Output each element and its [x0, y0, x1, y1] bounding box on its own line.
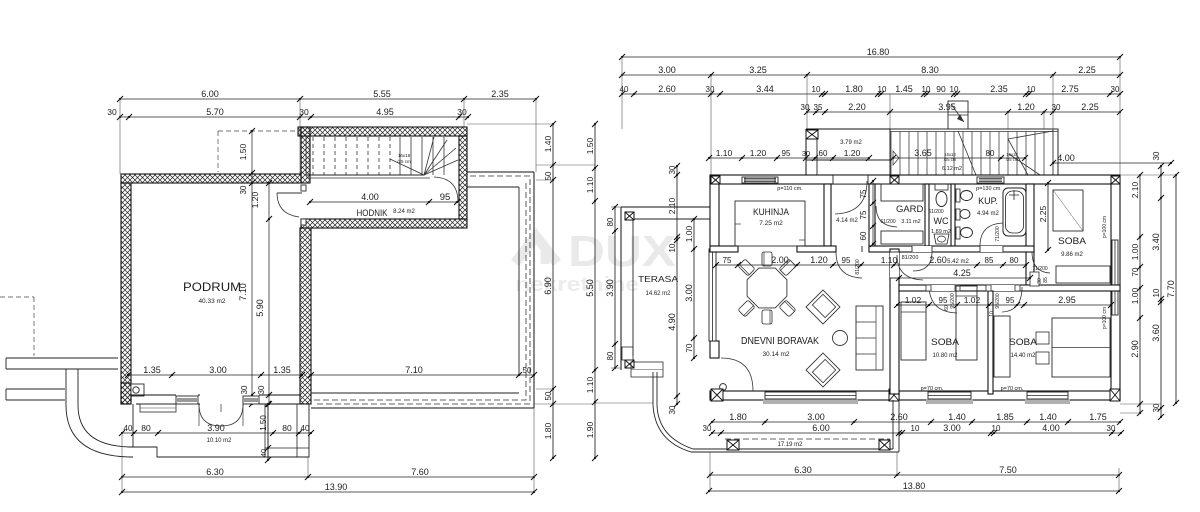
- svg-text:4.94 m2: 4.94 m2: [977, 211, 999, 217]
- chain 2.10/1.00/70/1.00/2.90: [1130, 172, 1143, 416]
- dim row 6.00 / 5.55 / 2.35: [117, 89, 539, 102]
- svg-text:30: 30: [1152, 403, 1161, 412]
- column marker pergola E: [879, 440, 890, 450]
- svg-text:61/200: 61/200: [880, 219, 896, 225]
- retaining wall band lower: [6, 388, 65, 390]
- dim 40/80/3.90/80/40: [119, 423, 314, 436]
- upstairs stair block outline: [890, 129, 1058, 177]
- svg-text:7.70: 7.70: [1166, 280, 1176, 298]
- svg-text:1.20: 1.20: [844, 148, 861, 158]
- svg-text:1.02: 1.02: [905, 295, 922, 305]
- extension line: [534, 403, 595, 405]
- wall W8 bottom of PODRUM (thin, with openings): [131, 394, 176, 396]
- wall SOBA1/SOBA2: [988, 291, 993, 394]
- column marker SE: [1110, 389, 1120, 401]
- svg-text:/25 cm: /25 cm: [944, 157, 957, 162]
- svg-text:GARD.: GARD.: [896, 204, 926, 214]
- nightstand SOBA2 a: [1036, 332, 1049, 344]
- wall living/bedroom hall: [890, 249, 899, 394]
- dim 1.50/40 porch: [259, 401, 271, 463]
- extension line: [1119, 57, 1121, 175]
- extension line: [611, 367, 621, 369]
- svg-text:1.80: 1.80: [729, 412, 747, 422]
- dim 2.25 SOBA top: [1038, 180, 1051, 253]
- svg-text:7.10: 7.10: [238, 283, 248, 301]
- svg-text:SOBA: SOBA: [931, 337, 960, 348]
- dim 7.10 / 50: [308, 365, 537, 378]
- window SOBA1 south: [926, 399, 973, 404]
- wall W5 stair block east: [459, 136, 467, 219]
- svg-text:1.50: 1.50: [585, 137, 595, 154]
- svg-text:50: 50: [544, 391, 553, 400]
- upstairs stair treads: [891, 132, 1044, 176]
- svg-text:40: 40: [301, 424, 310, 433]
- wall W6 corridor south: [301, 219, 467, 228]
- path from terasa: [652, 372, 654, 405]
- corridor floor line: [306, 177, 430, 179]
- svg-text:4.00: 4.00: [361, 192, 379, 202]
- column marker NW: [711, 176, 720, 184]
- svg-text:1.10: 1.10: [881, 255, 898, 265]
- svg-text:30: 30: [802, 149, 810, 158]
- svg-text:95: 95: [939, 296, 948, 305]
- svg-text:SOBA: SOBA: [1058, 236, 1087, 247]
- kitchen counter: [735, 201, 805, 246]
- svg-text:3.90: 3.90: [207, 423, 225, 433]
- chain 30/3.40/10/3.60/30: [1151, 151, 1164, 420]
- svg-text:95/200: 95/200: [950, 293, 956, 309]
- closet shelf GARD top: [881, 184, 923, 201]
- dim hall 75/2.00/1.20/95/1.10/2.60: [713, 255, 1029, 268]
- dashed boundary top-left: [0, 296, 34, 298]
- svg-text:1.35: 1.35: [143, 365, 161, 375]
- door at PODRUM northeast: [277, 192, 302, 194]
- extension line: [611, 206, 621, 208]
- svg-text:5.90: 5.90: [255, 299, 265, 317]
- stair landing edge: [306, 174, 424, 176]
- wall hall north: [869, 246, 1034, 252]
- svg-text:p=110 cm.: p=110 cm.: [777, 186, 803, 192]
- extension line: [1118, 468, 1120, 491]
- svg-text:p=130 cm.: p=130 cm.: [976, 186, 1002, 192]
- svg-text:1.85: 1.85: [996, 412, 1014, 422]
- column marker landing NW: [806, 130, 818, 139]
- svg-text:2.25: 2.25: [1081, 102, 1099, 112]
- svg-text:1.20: 1.20: [750, 148, 767, 158]
- svg-text:75: 75: [859, 189, 868, 198]
- svg-text:95: 95: [842, 256, 851, 265]
- extension line: [307, 457, 309, 477]
- terasa steps lower: [631, 362, 663, 377]
- extension line: [1007, 112, 1009, 129]
- svg-text:6.30: 6.30: [794, 465, 812, 475]
- svg-text:1.50: 1.50: [259, 415, 268, 431]
- staircase basement: winder diagonals: [390, 137, 458, 175]
- svg-text:3.60: 3.60: [1151, 324, 1161, 342]
- svg-text:2.90: 2.90: [1130, 340, 1140, 358]
- svg-text:7.50: 7.50: [999, 465, 1017, 475]
- svg-text:6.12 m2: 6.12 m2: [942, 166, 962, 172]
- wall kitchen south east pier: [797, 246, 836, 252]
- svg-text:4.25: 4.25: [953, 268, 971, 278]
- dim 16.80: [619, 47, 1123, 60]
- extension line: [467, 123, 553, 125]
- window east lower: [1112, 290, 1118, 315]
- door swing KUP: [980, 223, 1003, 246]
- door swing corridor east: [434, 177, 458, 202]
- svg-text:30: 30: [801, 103, 810, 112]
- svg-text:81/200: 81/200: [855, 259, 861, 275]
- double bed SOBA2: [1052, 318, 1110, 377]
- east wall: [1111, 184, 1120, 400]
- corner column box with drain: [131, 384, 144, 396]
- svg-text:95: 95: [782, 149, 791, 158]
- WC sink: [934, 234, 949, 244]
- svg-text:6.00: 6.00: [812, 423, 830, 433]
- extension line: [119, 99, 121, 174]
- svg-text:30: 30: [239, 185, 248, 194]
- svg-text:95: 95: [440, 192, 451, 203]
- dresser SOBA top: [1056, 266, 1110, 283]
- west wall kitchen: [710, 184, 719, 246]
- KUP toilet 2: [956, 227, 960, 239]
- dim 1.35/3.00/1.35: [125, 365, 305, 378]
- KUP toilet 1: [956, 189, 960, 202]
- svg-text:10.80 m2: 10.80 m2: [932, 353, 958, 359]
- svg-text:10: 10: [1027, 85, 1036, 94]
- coffee table: [833, 331, 848, 346]
- chain 1.40/50/6.90/50/1.80: [543, 121, 556, 461]
- south wall bedrooms: [899, 391, 1120, 400]
- svg-text:10: 10: [812, 85, 821, 94]
- svg-text:8.24 m2: 8.24 m2: [393, 209, 415, 215]
- wall W4 stair block west: [301, 127, 310, 183]
- svg-text:2.60: 2.60: [929, 255, 947, 265]
- svg-text:2.35: 2.35: [990, 84, 1008, 94]
- svg-text:5.55: 5.55: [373, 89, 391, 99]
- svg-text:p=70 cm.: p=70 cm.: [1001, 386, 1024, 392]
- svg-text:80: 80: [606, 217, 615, 226]
- svg-text:1.50: 1.50: [238, 143, 248, 160]
- svg-text:2.10: 2.10: [667, 197, 677, 214]
- extension line: [889, 94, 891, 129]
- door swing SOBA1: [929, 285, 957, 313]
- svg-text:2.35: 2.35: [491, 89, 509, 99]
- svg-text:4.00: 4.00: [1057, 153, 1075, 163]
- terasa step upper: [622, 347, 633, 360]
- door swing entry left: [199, 404, 221, 426]
- basement window 2: [243, 396, 259, 404]
- WC toilet: [935, 184, 948, 190]
- stair bump protrusion: [948, 101, 968, 129]
- svg-text:3.40: 3.40: [1151, 233, 1161, 251]
- extension line: [299, 99, 301, 174]
- door jamb: [1015, 285, 1020, 291]
- svg-text:50: 50: [544, 171, 553, 180]
- column marker terasa SW: [625, 360, 634, 368]
- dim row 30/35/2.20/3.95/1.20/30/2.25: [801, 102, 1123, 115]
- bathtub: [1003, 188, 1026, 236]
- svg-text:17.19 m2: 17.19 m2: [777, 442, 803, 448]
- svg-text:10: 10: [668, 243, 677, 252]
- svg-text:5.70: 5.70: [206, 107, 224, 117]
- svg-text:1.90: 1.90: [585, 421, 595, 438]
- svg-text:4.14 m2: 4.14 m2: [836, 218, 858, 224]
- svg-text:71/200: 71/200: [1032, 266, 1048, 272]
- entry porch outline: [133, 404, 309, 457]
- dashed roof projection above stair block: [217, 131, 219, 172]
- wall W3 stair block north: [298, 127, 467, 136]
- svg-text:DUX: DUX: [568, 227, 676, 276]
- svg-text:10: 10: [911, 424, 920, 433]
- extension line: [533, 408, 535, 492]
- column marker terasa NW: [625, 212, 634, 220]
- door jamb box: [1030, 272, 1039, 286]
- wall KUP/SOBA top: [1026, 184, 1034, 290]
- svg-text:1.40: 1.40: [543, 135, 553, 152]
- svg-text:40: 40: [124, 424, 133, 433]
- watermark: DUX logo roof, center: [515, 227, 676, 296]
- svg-text:1.20: 1.20: [810, 255, 828, 265]
- svg-text:/25 cm: /25 cm: [397, 159, 411, 164]
- column marker N center: [890, 176, 899, 184]
- extension line: [121, 433, 123, 492]
- svg-text:1.10: 1.10: [585, 376, 595, 393]
- door jamb: [986, 285, 991, 291]
- svg-text:2.60: 2.60: [890, 412, 908, 422]
- dim row 1.10/1.20/95/30/60/1.20: [706, 148, 872, 161]
- small step outline below bottom wall left: [140, 404, 176, 412]
- window kitchen north: [742, 177, 778, 183]
- svg-text:HODNIK: HODNIK: [357, 208, 389, 219]
- nightstand SOBA2 b: [1036, 352, 1049, 364]
- dim corridor 4.00 / 95: [307, 192, 460, 205]
- door swing lobby: [836, 252, 862, 278]
- svg-text:7.25 m2: 7.25 m2: [759, 220, 783, 227]
- svg-text:4.95: 4.95: [376, 107, 394, 117]
- svg-text:2.00: 2.00: [771, 255, 789, 265]
- dim 1.50/30/7.10/30 inside PODRUM: [238, 128, 255, 407]
- svg-text:70: 70: [685, 343, 694, 352]
- patio door swing living SW: [721, 358, 753, 391]
- drain circle symbol: [133, 387, 139, 393]
- right rectangle of left plan: outer solid: [467, 171, 534, 173]
- door swing SOBA2: [1002, 287, 1022, 312]
- svg-text:2.20: 2.20: [848, 102, 866, 112]
- svg-text:60: 60: [944, 305, 950, 311]
- dim 13.90: [119, 482, 537, 495]
- window: [928, 392, 971, 399]
- svg-text:3.79 m2: 3.79 m2: [840, 140, 862, 146]
- svg-text:16.80: 16.80: [867, 47, 890, 57]
- svg-text:30: 30: [1107, 424, 1116, 433]
- svg-text:5.50: 5.50: [585, 279, 595, 297]
- svg-text:3.44: 3.44: [756, 84, 774, 94]
- svg-text:80: 80: [141, 423, 151, 433]
- svg-text:3.00: 3.00: [943, 423, 961, 433]
- chain 30/2.10/10/4.90/30: [667, 163, 680, 414]
- svg-text:7.10: 7.10: [405, 365, 423, 375]
- svg-text:71/200: 71/200: [995, 226, 1001, 242]
- svg-text:PODRUM: PODRUM: [183, 280, 241, 294]
- wall WC/KUP: [951, 184, 955, 246]
- dim 3.00/3.25/8.30/2.25: [619, 65, 1123, 78]
- svg-text:85: 85: [1043, 277, 1049, 283]
- dim 1.80/3.00/2.60/1.40/1.85/1.40/1.75: [709, 412, 1123, 425]
- dining table (octagon): [747, 268, 787, 308]
- wardrobe SOBA2: [994, 316, 1010, 377]
- extension line: [1043, 112, 1045, 129]
- svg-text:35: 35: [814, 103, 823, 112]
- dim 6.30 / 7.50: [707, 465, 1122, 478]
- svg-text:KUP.: KUP.: [978, 196, 998, 206]
- svg-text:5.42 m2: 5.42 m2: [947, 259, 969, 265]
- svg-text:30: 30: [299, 107, 309, 117]
- window living south: [763, 399, 858, 404]
- svg-text:30: 30: [457, 107, 467, 117]
- column marker pergola W: [727, 440, 739, 450]
- extension line: [1120, 412, 1140, 414]
- staircase basement: treads: [313, 137, 444, 175]
- curved driveway wall: [66, 369, 133, 457]
- window east upper: [1112, 240, 1118, 285]
- armchair 1: [806, 290, 840, 324]
- wardrobe SOBA1: [956, 286, 977, 360]
- svg-text:6.30: 6.30: [206, 467, 224, 477]
- door swing kitchen: [835, 181, 867, 214]
- svg-text:10: 10: [950, 85, 959, 94]
- svg-text:p=100 cm: p=100 cm: [1102, 216, 1108, 238]
- svg-text:30: 30: [706, 85, 715, 94]
- svg-text:1.80: 1.80: [845, 84, 863, 94]
- svg-text:10: 10: [992, 424, 1001, 433]
- column marker SW living: [711, 389, 723, 401]
- svg-text:2.10: 2.10: [1130, 181, 1140, 198]
- sofa: [856, 306, 883, 370]
- door swing GARD: [876, 206, 897, 227]
- svg-text:2.95: 2.95: [1058, 295, 1076, 305]
- svg-text:10: 10: [922, 85, 931, 94]
- svg-text:30: 30: [1111, 85, 1120, 94]
- svg-text:1.20: 1.20: [250, 191, 260, 208]
- extension line: [1120, 403, 1161, 405]
- svg-text:6.00: 6.00: [201, 89, 219, 99]
- armchair 2: [806, 353, 840, 387]
- chain 1.00/3.00/70: [684, 216, 697, 361]
- extension line: [709, 452, 711, 491]
- door swing hall-living: [897, 255, 923, 280]
- svg-text:3.65: 3.65: [914, 148, 932, 158]
- svg-text:30: 30: [107, 107, 117, 117]
- svg-text:1.40: 1.40: [948, 412, 966, 422]
- svg-text:1.10: 1.10: [585, 176, 595, 193]
- svg-text:4.00: 4.00: [1042, 423, 1060, 433]
- svg-text:30: 30: [240, 385, 249, 394]
- svg-text:14.40 m2: 14.40 m2: [1010, 353, 1036, 359]
- upstairs landing: [806, 128, 890, 130]
- svg-text:1.45: 1.45: [895, 84, 913, 94]
- dim row 30/5.70/30/4.95/30: [107, 107, 471, 120]
- svg-text:3.00: 3.00: [807, 412, 825, 422]
- wall W2 left of PODRUM: [121, 183, 131, 404]
- right rectangle: dashed inner outline: [314, 176, 530, 404]
- extension line: [535, 99, 537, 172]
- svg-text:4.90: 4.90: [667, 313, 677, 331]
- TERASA outline: [621, 206, 710, 208]
- svg-text:30: 30: [703, 424, 712, 433]
- svg-text:7.60: 7.60: [411, 467, 429, 477]
- svg-text:30.14 m2: 30.14 m2: [762, 351, 789, 358]
- svg-text:1.10: 1.10: [716, 148, 733, 158]
- dim 6.30 / 7.60: [119, 467, 537, 480]
- extension line: [536, 164, 595, 166]
- svg-text:3.25: 3.25: [749, 65, 767, 75]
- wall W8a bottom-left corner piece: [121, 383, 131, 404]
- dim row 40/2.60/30/3.44/10/1.80/10/1.45/10/90/10/2.35/10/2.75/30: [619, 84, 1123, 97]
- svg-text:1.20: 1.20: [1017, 102, 1035, 112]
- wall kitchen south west pier: [710, 246, 738, 252]
- closet shelf GARD bottom: [881, 231, 923, 244]
- basement window 1: [176, 396, 198, 404]
- svg-text:1.00: 1.00: [1130, 243, 1140, 260]
- svg-text:40.33 m2: 40.33 m2: [198, 298, 225, 305]
- dim 1.20/5.90/30 inside PODRUM: [250, 180, 272, 407]
- patio lower terrace: [691, 451, 899, 453]
- svg-text:3.11 m2: 3.11 m2: [901, 219, 920, 225]
- dim 1.02/95/1.02/95/2.95: [894, 295, 1114, 308]
- svg-text:81/200: 81/200: [902, 255, 919, 261]
- svg-text:1.75: 1.75: [1089, 412, 1107, 422]
- svg-text:70: 70: [1131, 267, 1140, 276]
- svg-text:3.90: 3.90: [605, 279, 615, 297]
- extension line: [595, 402, 653, 404]
- svg-text:40: 40: [620, 85, 629, 94]
- door jamb: [926, 285, 931, 291]
- svg-text:80: 80: [606, 351, 615, 360]
- svg-text:30: 30: [668, 405, 677, 414]
- svg-text:16x18: 16x18: [398, 153, 411, 158]
- north wall: [710, 175, 1120, 184]
- chain 7.70: [1166, 172, 1179, 406]
- svg-text:WC: WC: [934, 216, 949, 226]
- svg-text:75: 75: [859, 210, 868, 219]
- svg-text:1.80: 1.80: [543, 422, 553, 439]
- extension line: [621, 57, 623, 129]
- svg-text:p=70 cm.: p=70 cm.: [921, 386, 944, 392]
- dashed pergola line: [725, 438, 890, 440]
- right rectangle: inner solid floor edge: [467, 186, 519, 188]
- svg-text:10.10 m2: 10.10 m2: [206, 438, 232, 444]
- svg-text:1.00: 1.00: [684, 225, 694, 242]
- extension line: [710, 75, 712, 175]
- window KUP north: [977, 177, 1004, 183]
- svg-text:10: 10: [878, 85, 887, 94]
- svg-text:60: 60: [819, 149, 828, 158]
- door jamb boxes at corridor west door: [301, 185, 306, 191]
- stair cut diagonal: [958, 131, 976, 175]
- wall W7 PODRUM east: [300, 228, 311, 404]
- svg-text:2.25: 2.25: [1078, 65, 1096, 75]
- extension line: [896, 452, 898, 475]
- svg-text:90: 90: [936, 84, 946, 94]
- door swing SOBA top: [1032, 252, 1050, 273]
- svg-text:30: 30: [1152, 151, 1161, 160]
- svg-text:60: 60: [859, 231, 868, 240]
- dim 30/6.00/10/3.00/10/4.00/30: [703, 423, 1124, 436]
- svg-text:10: 10: [1152, 288, 1161, 297]
- door swing PODRUM NE: [277, 193, 299, 217]
- west wall living mid: [710, 341, 719, 358]
